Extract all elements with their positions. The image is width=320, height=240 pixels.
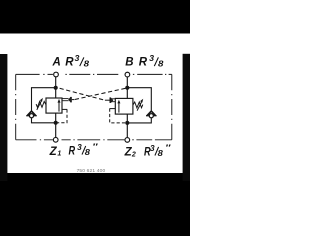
- port Z1 circle: [53, 137, 58, 142]
- wire: port B down to valve V2: [126, 77, 128, 99]
- svg-text:8: 8: [85, 148, 91, 157]
- svg-text:3: 3: [77, 143, 82, 152]
- svg-text:2: 2: [131, 151, 136, 158]
- check valve CV1 seat: [27, 111, 31, 115]
- wire: port A down to valve V1: [55, 77, 57, 99]
- svg-text:3: 3: [149, 54, 155, 63]
- wire: valve V2 down to port Z2: [126, 114, 128, 137]
- port Z2 circle: [125, 138, 130, 143]
- wire: valve V1 down to port Z1: [55, 113, 57, 137]
- svg-text:R: R: [69, 145, 76, 157]
- check valve CV2 seat: [147, 111, 151, 115]
- enclosure (subplate boundary, chain line): [16, 74, 172, 139]
- port B circle: [125, 72, 130, 77]
- pilot line X: dashed from node A to right valve pilot: [60, 88, 105, 100]
- label B R3/8: [125, 54, 164, 68]
- svg-text:R: R: [139, 57, 148, 69]
- V2 spring (adjustable): [133, 102, 143, 108]
- right black margin bar: [183, 54, 190, 181]
- junction node A: [54, 86, 58, 90]
- wire: right check valve to bottom node: [127, 118, 151, 123]
- V2 spring chamber drain (dashed): [110, 108, 116, 110]
- left black margin bar: [0, 54, 7, 181]
- V2 adjustment arrow: [137, 102, 142, 111]
- svg-text:8: 8: [158, 60, 164, 69]
- V2 pilot stub (double line): [111, 98, 115, 100]
- V1 pilot arrowhead: [68, 97, 70, 102]
- V1 spring chamber drain (dashed): [62, 108, 67, 110]
- junction node below V2: [125, 121, 129, 125]
- wire: node B to right bypass branch: [127, 88, 151, 112]
- top black band: [0, 0, 190, 34]
- V2 pilot arrowhead: [111, 98, 113, 103]
- svg-text:8: 8: [84, 60, 90, 69]
- svg-text:A: A: [52, 57, 61, 69]
- svg-text:R: R: [65, 57, 74, 69]
- V1 adjustment arrow: [37, 101, 42, 110]
- label A R3/8: [52, 54, 90, 68]
- relief valve V1 body: [46, 98, 62, 113]
- V1 spring (adjustable): [36, 102, 46, 108]
- relief valve V2 body: [115, 98, 133, 114]
- label Z1 R3/8": [49, 142, 99, 158]
- label Z2 R3/8": [124, 144, 172, 159]
- port A circle: [54, 72, 59, 77]
- pilot line X: dashed from node B to left valve pilot: [74, 88, 125, 99]
- V1 pilot stub (double line): [62, 98, 69, 100]
- svg-text:3: 3: [150, 144, 155, 153]
- svg-text:1: 1: [57, 151, 61, 158]
- svg-text:3: 3: [75, 54, 81, 63]
- svg-text:750 621 400: 750 621 400: [77, 168, 106, 174]
- svg-text:8: 8: [158, 149, 164, 158]
- wire: left check valve to bottom node: [32, 118, 56, 123]
- svg-text:Z: Z: [49, 146, 58, 158]
- V2 flow arrow: [118, 103, 120, 113]
- bottom black band: [0, 173, 190, 236]
- V1 flow arrow: [58, 102, 60, 112]
- junction node below V1: [54, 121, 58, 125]
- check valve CV1 ball: [29, 114, 33, 118]
- wire: node A to left bypass branch: [32, 88, 56, 112]
- svg-text:B: B: [125, 57, 133, 69]
- junction node B: [125, 86, 129, 90]
- check valve CV2 ball: [149, 114, 153, 118]
